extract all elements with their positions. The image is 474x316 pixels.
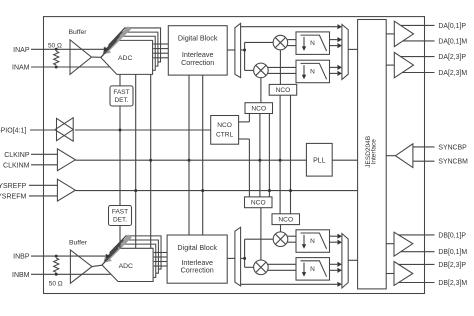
svg-text:INBP: INBP — [13, 254, 30, 261]
svg-text:DA[0,1]M: DA[0,1]M — [438, 38, 467, 45]
svg-text:Correction: Correction — [181, 58, 214, 67]
svg-text:INAP: INAP — [13, 47, 30, 54]
svg-text:NCO: NCO — [251, 106, 266, 113]
svg-text:N: N — [310, 40, 315, 47]
svg-text:NCO: NCO — [276, 87, 291, 94]
svg-text:DA[2,3]P: DA[2,3]P — [438, 54, 466, 61]
svg-text:NCO: NCO — [278, 217, 293, 224]
svg-text:ADC: ADC — [119, 263, 133, 270]
svg-text:FAST: FAST — [113, 89, 129, 96]
svg-text:FAST: FAST — [112, 209, 128, 216]
svg-text:PLL: PLL — [313, 158, 326, 165]
svg-text:N: N — [310, 266, 315, 273]
svg-text:CLKINP: CLKINP — [4, 152, 30, 159]
svg-text:Buffer: Buffer — [68, 29, 87, 36]
svg-text:CLKINM: CLKINM — [3, 162, 30, 169]
svg-text:Digital Block: Digital Block — [178, 33, 218, 42]
svg-text:N: N — [310, 238, 315, 245]
svg-text:GPIO[4:1]: GPIO[4:1] — [0, 128, 26, 135]
svg-text:DB[0,1]M: DB[0,1]M — [438, 249, 467, 256]
svg-text:INBM: INBM — [12, 272, 30, 279]
svg-text:SYSREFM: SYSREFM — [0, 193, 26, 200]
svg-text:N: N — [310, 69, 315, 76]
svg-text:DB[2,3]M: DB[2,3]M — [438, 280, 467, 287]
svg-text:50 Ω: 50 Ω — [49, 280, 63, 287]
svg-text:Buffer: Buffer — [69, 239, 88, 246]
svg-text:SYNCBP: SYNCBP — [438, 144, 467, 151]
svg-text:Correction: Correction — [181, 266, 214, 275]
svg-text:CTRL: CTRL — [216, 132, 234, 139]
svg-text:Interface: Interface — [370, 139, 377, 165]
svg-text:INAM: INAM — [12, 65, 30, 72]
svg-text:DET.: DET. — [113, 216, 127, 223]
svg-text:DA[0,1]P: DA[0,1]P — [438, 23, 466, 30]
svg-text:SYNCBM: SYNCBM — [438, 159, 468, 166]
svg-text:50 Ω: 50 Ω — [48, 43, 62, 50]
svg-text:DET.: DET. — [114, 97, 128, 104]
svg-text:DB[0,1]P: DB[0,1]P — [438, 232, 466, 239]
svg-text:NCO: NCO — [217, 122, 232, 129]
svg-text:SYSREFP: SYSREFP — [0, 183, 27, 190]
svg-text:Digital Block: Digital Block — [177, 243, 217, 252]
svg-text:NCO: NCO — [251, 200, 266, 207]
svg-text:DA[2,3]M: DA[2,3]M — [438, 70, 467, 77]
svg-text:DB[2,3]P: DB[2,3]P — [438, 262, 466, 269]
svg-text:ADC: ADC — [118, 55, 132, 62]
